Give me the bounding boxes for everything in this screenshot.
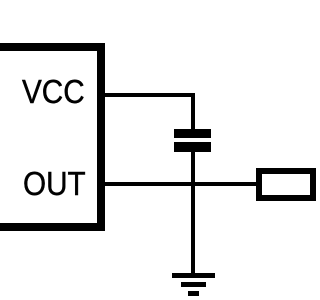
wire vertical: capacitor bottom plate down to ground [191, 152, 195, 274]
pin label VCC [22, 73, 94, 109]
capacitor C1 [174, 129, 211, 153]
ground [172, 273, 215, 297]
wire OUT pin to resistor (crosses vertical net at junction) [105, 182, 257, 186]
pin label OUT [23, 165, 95, 201]
wire vertical: VCC corner down to capacitor top plate [191, 93, 195, 130]
wire VCC pin to vertical net [105, 93, 196, 97]
resistor R1 [256, 168, 316, 201]
IC box U1 [0, 43, 105, 231]
